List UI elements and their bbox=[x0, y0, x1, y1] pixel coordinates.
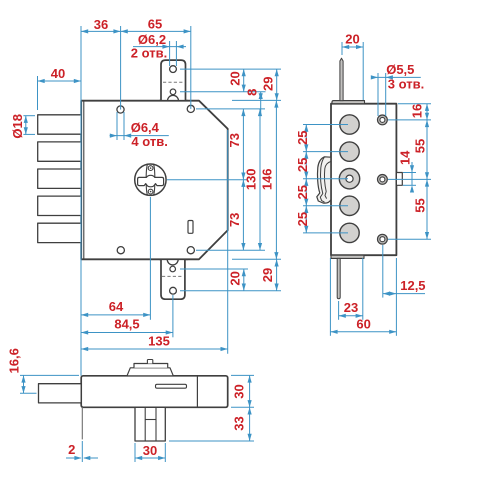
dim 64 bbox=[81, 314, 150, 316]
lock body front view bbox=[81, 101, 228, 260]
svg-text:60: 60 bbox=[356, 316, 370, 331]
bolt 5 front view bbox=[38, 223, 81, 242]
extension bottom holes y250.2 bbox=[196, 249, 265, 251]
bolt 5 side view bbox=[340, 223, 359, 242]
svg-text:14: 14 bbox=[397, 150, 412, 165]
dim chain 25x4 bbox=[305, 125, 307, 233]
svg-text:Ø18: Ø18 bbox=[10, 114, 25, 139]
side view bottom rod bbox=[337, 258, 340, 298]
svg-text:16,6: 16,6 bbox=[7, 348, 22, 373]
bottom tab dashed line bbox=[162, 275, 184, 277]
svg-text:2 отв.: 2 отв. bbox=[131, 46, 167, 61]
faceplate hole 1 (O5.5) bbox=[378, 115, 388, 125]
svg-text:Ø5,5: Ø5,5 bbox=[386, 62, 414, 77]
extension keyhole bottom x150.4 bbox=[149, 197, 151, 320]
top escutcheon small circle bbox=[170, 89, 176, 95]
svg-text:30: 30 bbox=[231, 384, 246, 398]
keyhole top screw bbox=[148, 166, 153, 171]
svg-text:33: 33 bbox=[231, 416, 246, 430]
dim 29 top bbox=[276, 69, 278, 100]
body hole 4 (O6.4) bbox=[187, 247, 194, 254]
svg-text:36: 36 bbox=[94, 17, 108, 32]
side view top step bbox=[332, 101, 365, 104]
bottom view divider bbox=[196, 376, 198, 408]
handle slot bbox=[188, 221, 193, 234]
escutcheon bottom view top bbox=[134, 364, 168, 368]
O6.2 hole edge extensions bbox=[169, 41, 171, 66]
svg-text:130: 130 bbox=[244, 168, 259, 190]
top mounting plate tab bbox=[161, 60, 186, 101]
dim 60 bbox=[330, 331, 396, 333]
svg-text:55: 55 bbox=[413, 139, 428, 153]
bolt 1 front view bbox=[38, 115, 81, 134]
bolt 3 side view bbox=[339, 169, 359, 189]
bolt bottom view bbox=[39, 384, 82, 403]
svg-text:12,5: 12,5 bbox=[400, 278, 425, 293]
dim 135 bbox=[81, 348, 228, 350]
svg-text:73: 73 bbox=[227, 133, 242, 147]
svg-text:25: 25 bbox=[295, 130, 310, 144]
cylinder 30 extensions bbox=[134, 443, 136, 462]
bolt 3 front view bbox=[38, 169, 81, 188]
dim 20 top bbox=[243, 69, 245, 92]
side view top rod bbox=[340, 58, 343, 100]
bolt 2 front view bbox=[38, 142, 81, 161]
23 extensions bbox=[338, 301, 340, 320]
16/55/55 extensions bbox=[398, 103, 431, 105]
16.6 extensions bbox=[20, 374, 79, 376]
dim 130 bbox=[259, 109, 261, 250]
keyhole bottom screw bbox=[148, 189, 153, 194]
extension line hole column x190.8 bbox=[190, 26, 192, 109]
extension body top y100.7 bbox=[232, 99, 281, 101]
top tab dashed line bbox=[163, 81, 184, 83]
extension from tab hole y69.1 bbox=[180, 68, 281, 70]
bolt 2 side view bbox=[340, 142, 359, 161]
bolt 4 front view bbox=[38, 196, 81, 215]
svg-text:73: 73 bbox=[227, 213, 242, 227]
svg-text:55: 55 bbox=[413, 198, 428, 212]
dim 16,6 bbox=[23, 375, 25, 393]
escutcheon bottom view base bbox=[127, 368, 173, 376]
side view bottom step bbox=[331, 255, 364, 258]
O5.5 extensions bbox=[377, 73, 379, 116]
body hole 1 (O6.4) bbox=[117, 106, 124, 113]
dim 73 upper bbox=[242, 109, 244, 180]
extension line hole column x120.6 bbox=[120, 26, 122, 110]
14 extensions bbox=[403, 172, 416, 174]
body hole 3 (O6.4) bbox=[117, 247, 124, 254]
svg-text:25: 25 bbox=[295, 185, 310, 199]
svg-text:20: 20 bbox=[345, 32, 359, 47]
bottom escutcheon small circle bbox=[170, 266, 176, 272]
svg-text:84,5: 84,5 bbox=[114, 317, 139, 332]
dim O6.4 bbox=[110, 135, 169, 137]
svg-text:23: 23 bbox=[344, 300, 358, 315]
extension bolt left x37.5 bbox=[37, 76, 39, 110]
extension from keyhole y179.7 bbox=[167, 179, 247, 181]
bottom view body bbox=[81, 376, 228, 408]
svg-text:4 отв.: 4 отв. bbox=[131, 134, 167, 149]
dim O5.5 bbox=[373, 76, 421, 78]
dim chain 16/55/55 bbox=[426, 104, 428, 240]
O6.4 hole edge extensions bbox=[116, 112, 118, 140]
dim 20 rod bbox=[342, 46, 363, 48]
dim 65 bbox=[121, 30, 191, 32]
svg-text:20: 20 bbox=[228, 271, 243, 285]
bottom escutcheon arc bbox=[167, 259, 178, 265]
dim 84,5 bbox=[81, 332, 173, 334]
top escutcheon arc bbox=[168, 95, 179, 100]
extension from small circle y91.8 bbox=[180, 91, 266, 93]
key slot bbox=[138, 175, 164, 187]
extension from top-right hole y108.9 bbox=[196, 108, 265, 110]
dim 20 bottom bbox=[243, 269, 245, 291]
dim 8 bbox=[260, 92, 262, 114]
svg-text:3 отв.: 3 отв. bbox=[388, 77, 424, 92]
dim 2 bbox=[66, 457, 81, 459]
faceplate hole 2 (O5.5) bbox=[378, 175, 388, 185]
latch lever bbox=[317, 157, 331, 203]
svg-text:8: 8 bbox=[244, 89, 259, 96]
dim O18 bbox=[25, 116, 27, 135]
dim 40 bbox=[38, 80, 82, 82]
12.5 extensions bbox=[382, 245, 384, 298]
extension line left x81 bbox=[80, 26, 82, 376]
svg-text:135: 135 bbox=[148, 333, 170, 348]
bottom tab hole bbox=[170, 287, 177, 294]
svg-text:30: 30 bbox=[143, 443, 157, 458]
O18 extensions bbox=[23, 115, 35, 117]
svg-text:146: 146 bbox=[260, 168, 275, 190]
svg-text:2: 2 bbox=[68, 442, 75, 457]
body hole 2 (O6.4) bbox=[187, 105, 194, 112]
svg-text:29: 29 bbox=[260, 268, 275, 282]
dim 30 cylinder bbox=[135, 457, 165, 459]
faceplate edge line bbox=[83, 101, 85, 260]
extension tab hole y290.7 bbox=[180, 290, 281, 292]
thin plate (2mm) bbox=[81, 407, 83, 439]
bottom view slot bbox=[156, 384, 187, 388]
faceplate hole 3 (O5.5) bbox=[378, 234, 388, 244]
extension body right x227.7 bbox=[227, 130, 229, 354]
dim 36 bbox=[81, 30, 121, 32]
dim 14 bbox=[411, 162, 413, 185]
svg-text:Ø6,4: Ø6,4 bbox=[131, 120, 160, 135]
svg-text:16: 16 bbox=[410, 104, 425, 118]
svg-text:40: 40 bbox=[51, 66, 65, 81]
svg-text:25: 25 bbox=[295, 212, 310, 226]
escutcheon nub bbox=[147, 360, 152, 364]
dim 12,5 bbox=[383, 293, 425, 295]
20 rod extensions bbox=[341, 42, 343, 55]
25 chain extensions bbox=[303, 124, 348, 126]
svg-text:29: 29 bbox=[261, 77, 276, 91]
extension small circle y269 bbox=[180, 268, 248, 270]
60 extensions bbox=[329, 258, 331, 336]
dim 29 bottom bbox=[276, 259, 278, 290]
bolt 1 side view bbox=[340, 115, 359, 134]
svg-text:20: 20 bbox=[228, 71, 243, 85]
dim O6.2 bbox=[133, 46, 186, 48]
svg-text:65: 65 bbox=[148, 16, 162, 31]
extension body bottom y259.3 bbox=[232, 258, 281, 260]
keyhole outer circle bbox=[135, 164, 166, 195]
bottom mounting plate tab bbox=[161, 259, 185, 299]
extension thin plate x82.3 bbox=[81, 441, 83, 462]
svg-text:25: 25 bbox=[295, 158, 310, 172]
keyhole vertical band bbox=[146, 164, 155, 195]
bolt 4 side view bbox=[340, 196, 359, 215]
right 30/33 extensions bbox=[231, 374, 254, 376]
side view faceplate bbox=[331, 104, 396, 256]
body edge across tabs bbox=[159, 100, 188, 102]
extension tab hole x172.9 bbox=[172, 295, 174, 337]
top tab hole bbox=[170, 66, 177, 73]
dim 146 bbox=[275, 100, 277, 259]
dim 73 lower bbox=[242, 180, 244, 251]
dim 23 bbox=[339, 315, 363, 317]
svg-text:64: 64 bbox=[109, 299, 124, 314]
side latch tab (14) bbox=[396, 173, 402, 186]
cylinder housing bottom view bbox=[135, 407, 165, 441]
dim 30 body bbox=[249, 375, 251, 407]
dim 33 bbox=[249, 407, 251, 441]
